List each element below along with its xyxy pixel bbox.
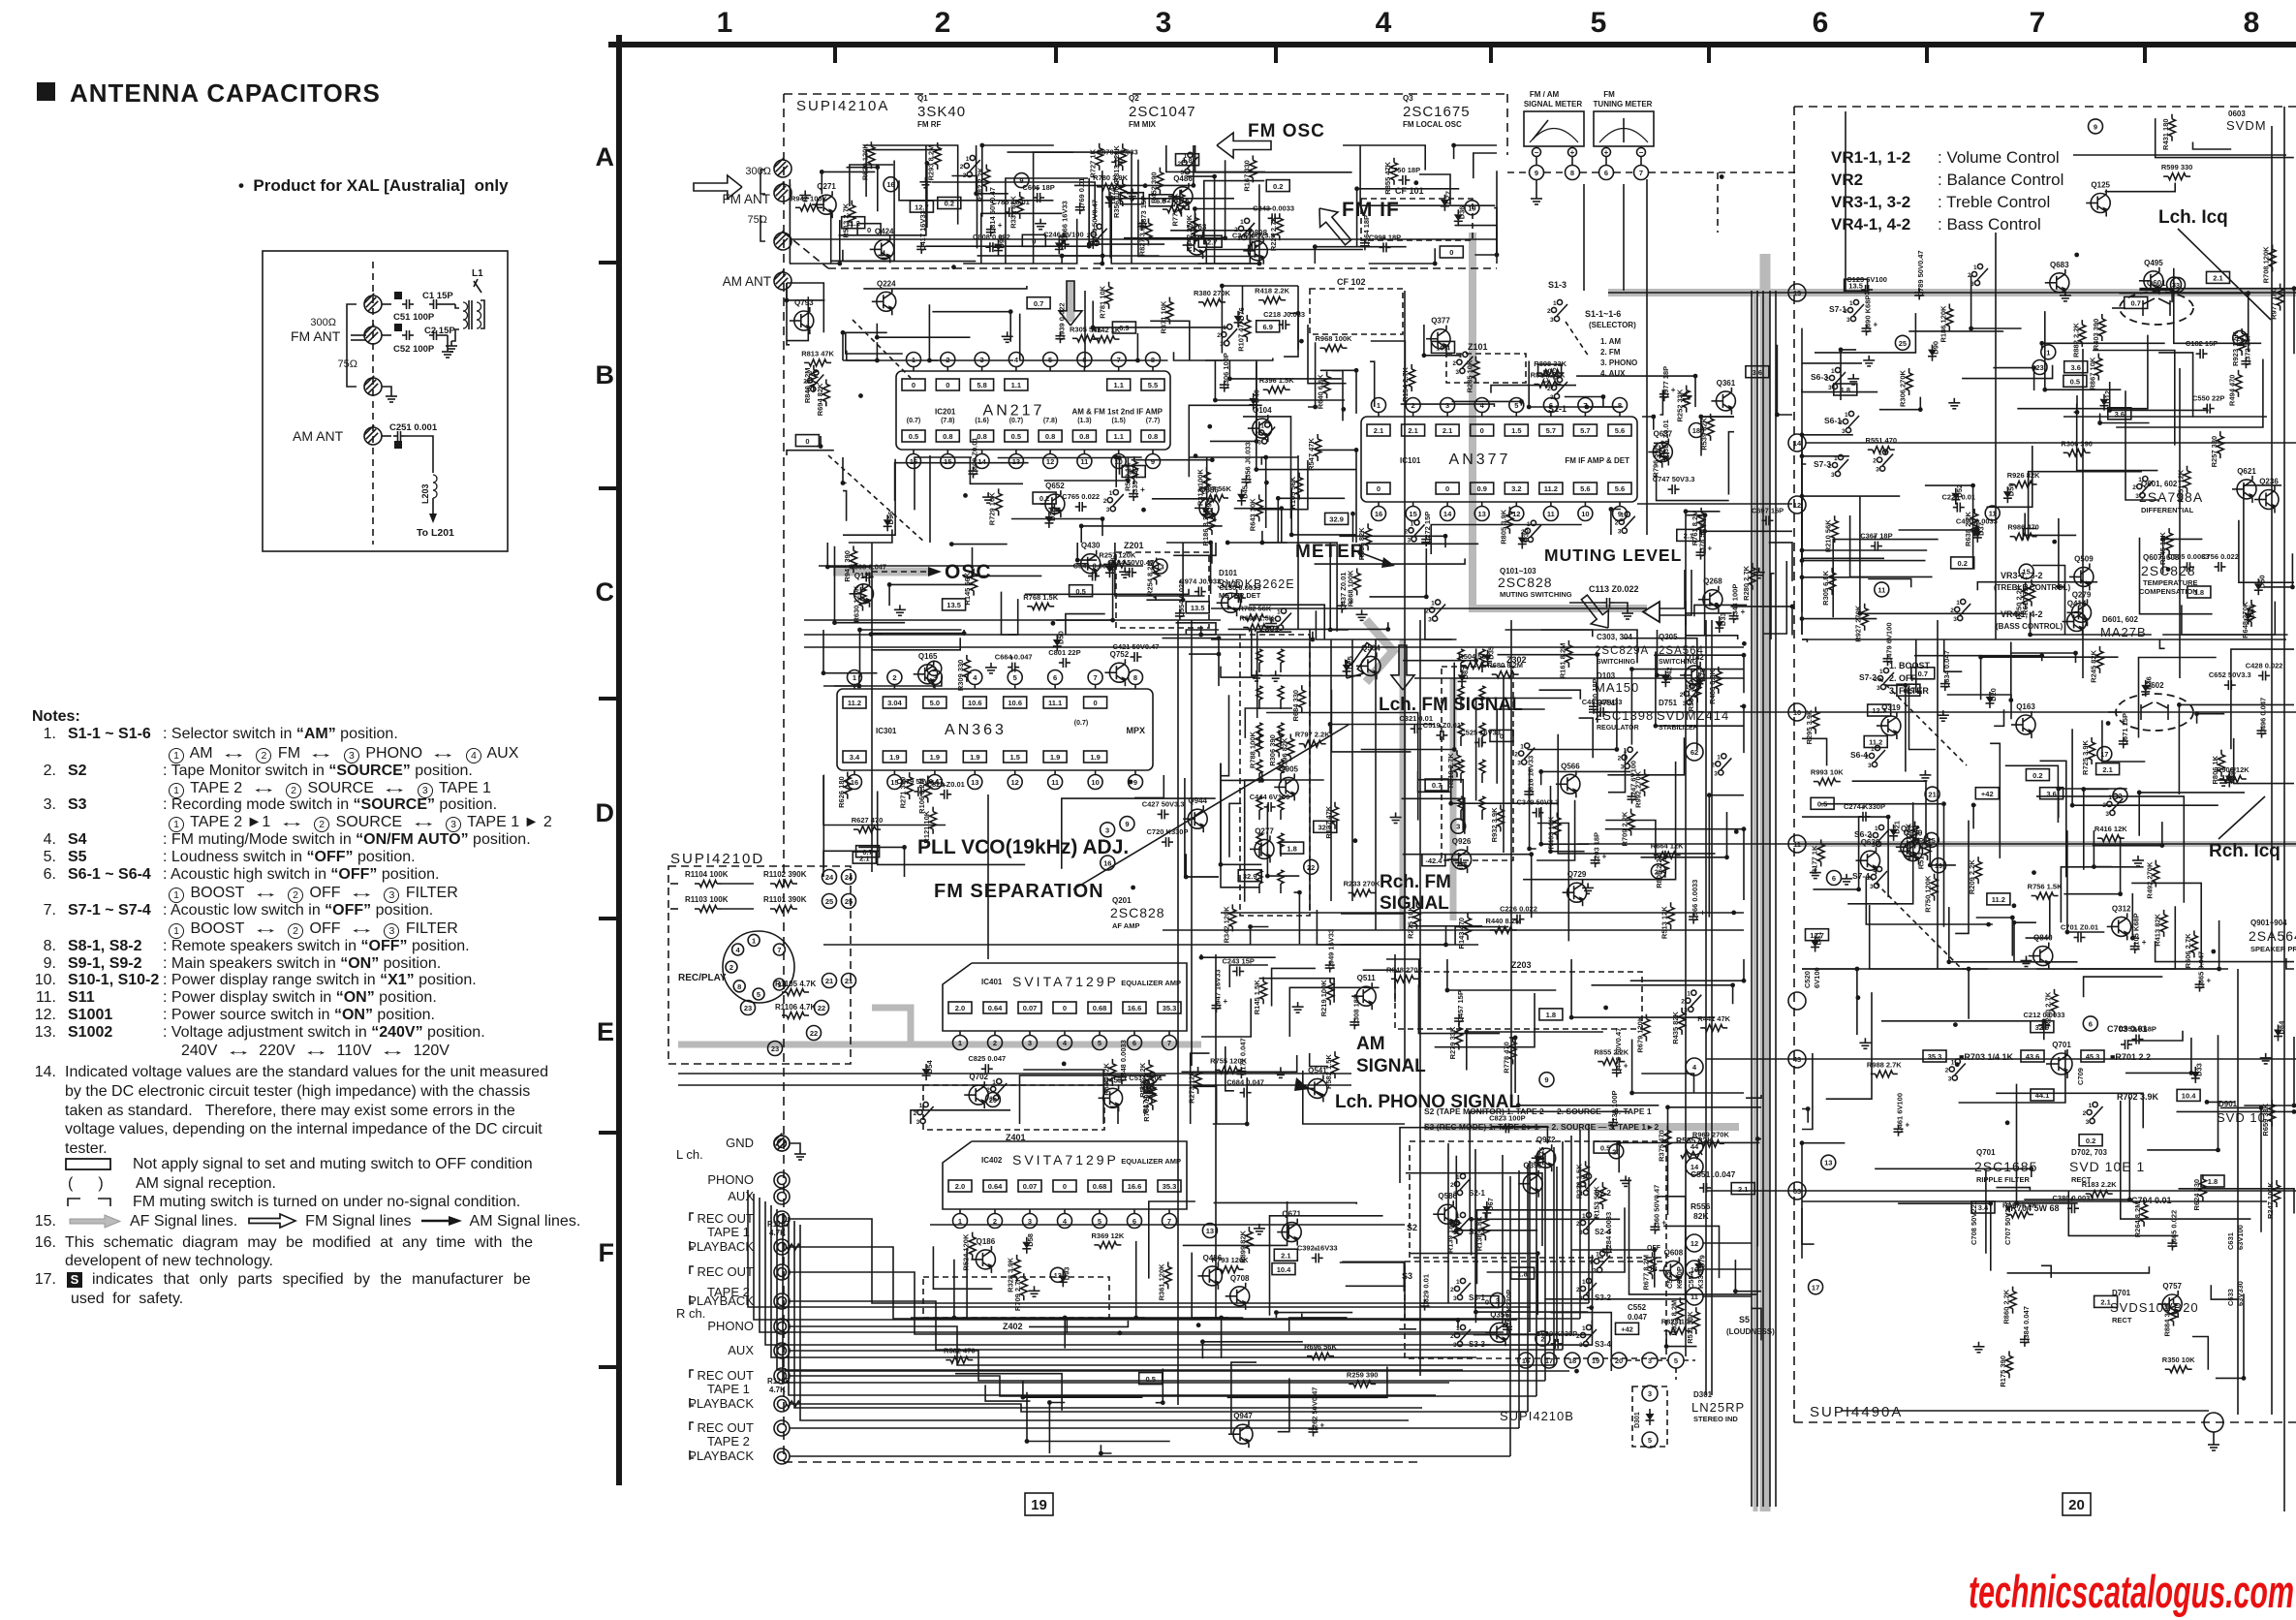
svg-text:Q271: Q271 xyxy=(817,182,836,191)
svg-text:C652 50V3.3: C652 50V3.3 xyxy=(2209,670,2251,679)
svg-text:2: 2 xyxy=(1547,386,1551,392)
svg-text:6.9: 6.9 xyxy=(1119,324,1129,332)
svg-text:1: 1 xyxy=(1717,754,1721,761)
svg-text:13.5: 13.5 xyxy=(946,601,961,609)
svg-text:3: 3 xyxy=(1028,1039,1032,1047)
svg-text:1: 1 xyxy=(1184,153,1188,160)
svg-text:+: + xyxy=(1320,1421,1325,1430)
svg-text:FM IF: FM IF xyxy=(1342,199,1400,221)
svg-text:10: 10 xyxy=(1091,778,1099,787)
svg-text:R368 100K: R368 100K xyxy=(1347,570,1355,607)
svg-text:(0.7): (0.7) xyxy=(1074,720,1088,727)
svg-text:19: 19 xyxy=(1935,861,1942,870)
svg-text:5.7: 5.7 xyxy=(1546,426,1556,435)
svg-text:3: 3 xyxy=(2086,1119,2090,1126)
svg-text:0.5: 0.5 xyxy=(1904,686,1913,695)
svg-text:C303, 304: C303, 304 xyxy=(1597,633,1632,641)
svg-text:3: 3 xyxy=(1550,317,1554,324)
svg-text:R413 82K: R413 82K xyxy=(2154,913,2162,946)
svg-text:5: 5 xyxy=(1591,7,1607,39)
svg-text:3.4: 3.4 xyxy=(850,753,860,762)
svg-text:2: 2 xyxy=(1178,161,1182,168)
svg-text:C308 0.047: C308 0.047 xyxy=(849,563,886,572)
svg-text:7: 7 xyxy=(2030,7,2046,39)
svg-text:0.5: 0.5 xyxy=(1817,800,1827,809)
svg-text:2.1: 2.1 xyxy=(1443,426,1452,435)
svg-text:R396 1.5K: R396 1.5K xyxy=(1259,376,1294,385)
svg-text:Q312: Q312 xyxy=(2112,904,2131,913)
svg-text:16.6: 16.6 xyxy=(1128,1182,1142,1191)
svg-text:3: 3 xyxy=(1453,1191,1457,1198)
svg-text:R556: R556 xyxy=(1691,1201,1711,1211)
svg-text:D301: D301 xyxy=(1693,1390,1713,1399)
svg-text:12: 12 xyxy=(1011,778,1019,787)
svg-text:12.7: 12.7 xyxy=(1203,237,1218,246)
svg-text:24: 24 xyxy=(845,873,853,882)
svg-text:R827 3.9K: R827 3.9K xyxy=(1138,221,1147,256)
svg-text:R259 390: R259 390 xyxy=(1347,1370,1379,1379)
svg-text:C801 22P: C801 22P xyxy=(1048,648,1080,657)
svg-text:(7.8): (7.8) xyxy=(1043,418,1057,424)
svg-text:12: 12 xyxy=(1512,510,1520,518)
svg-text:R624 330: R624 330 xyxy=(2192,1179,2201,1211)
svg-text:SVDM: SVDM xyxy=(2226,118,2267,133)
svg-text:2: 2 xyxy=(935,7,951,39)
svg-text:+42: +42 xyxy=(1621,1325,1633,1334)
svg-text:R648 270K: R648 270K xyxy=(2241,601,2249,639)
svg-text:1: 1 xyxy=(1621,513,1625,519)
svg-text:Q511: Q511 xyxy=(1357,974,1377,982)
svg-text:8: 8 xyxy=(2244,7,2260,39)
svg-text:5: 5 xyxy=(1648,1436,1652,1445)
svg-text:R1108: R1108 xyxy=(767,1377,791,1386)
svg-text:12: 12 xyxy=(1046,457,1054,466)
svg-text:13: 13 xyxy=(1054,1271,1062,1280)
svg-text:SIGNAL METER: SIGNAL METER xyxy=(1524,100,1583,109)
svg-text:10.4: 10.4 xyxy=(2182,1092,2196,1101)
svg-text:0.2: 0.2 xyxy=(1957,559,1967,568)
svg-text:PLL VCO(19kHz) ADJ.: PLL VCO(19kHz) ADJ. xyxy=(917,836,1129,858)
svg-text:2.1: 2.1 xyxy=(859,854,869,862)
svg-text:FM / AM: FM / AM xyxy=(1530,90,1560,99)
svg-text:R293 8.2M: R293 8.2M xyxy=(927,145,936,181)
svg-text:(LOUDNESS): (LOUDNESS) xyxy=(1726,1327,1775,1336)
svg-text:0.8: 0.8 xyxy=(1045,432,1055,441)
svg-text:2: 2 xyxy=(1450,1221,1454,1228)
svg-text:9: 9 xyxy=(1019,176,1023,185)
svg-text:C703 0.01: C703 0.01 xyxy=(2107,1024,2148,1034)
svg-text:TAPE 1: TAPE 1 xyxy=(707,1382,750,1396)
svg-text:+: + xyxy=(2142,938,2147,947)
svg-text:VR2: VR2 xyxy=(1831,171,1863,189)
svg-text:82K: 82K xyxy=(1693,1211,1709,1221)
svg-text:5.7: 5.7 xyxy=(1580,426,1590,435)
svg-text:C130 0.0033: C130 0.0033 xyxy=(1219,583,1260,592)
svg-text:Q702: Q702 xyxy=(969,1073,988,1081)
svg-text:7: 7 xyxy=(777,946,781,954)
svg-text:COMPENSATION: COMPENSATION xyxy=(2139,587,2198,596)
svg-text:SVD 10: SVD 10 xyxy=(2217,1110,2266,1125)
svg-text:Q104: Q104 xyxy=(1253,406,1272,415)
svg-text:R599 330: R599 330 xyxy=(2161,163,2193,171)
svg-text:2: 2 xyxy=(1521,529,1525,536)
svg-text:1: 1 xyxy=(1411,520,1414,527)
svg-text:R219 100K: R219 100K xyxy=(1319,980,1328,1017)
svg-text:IC101: IC101 xyxy=(1400,456,1421,465)
svg-text:Q361: Q361 xyxy=(1717,379,1736,388)
svg-text:3: 3 xyxy=(1181,170,1185,176)
svg-text:AUX: AUX xyxy=(728,1343,754,1357)
svg-text:1.1: 1.1 xyxy=(1011,381,1021,389)
svg-text:45.3: 45.3 xyxy=(2086,1052,2100,1061)
svg-text:R988 2.7K: R988 2.7K xyxy=(1867,1060,1902,1069)
svg-text:1: 1 xyxy=(1456,1174,1460,1181)
svg-text:0.2: 0.2 xyxy=(945,200,954,208)
svg-text:C814 50V0.47: C814 50V0.47 xyxy=(988,187,997,234)
svg-text:3: 3 xyxy=(916,1119,920,1126)
svg-text:AM & FM 1st 2nd IF AMP: AM & FM 1st 2nd IF AMP xyxy=(1072,408,1164,417)
svg-text:S2 (TAPE MONITOR) 1. TAPE: S2 (TAPE MONITOR) 1. TAPE 2 — 2. SOURCE … xyxy=(1424,1106,1652,1116)
svg-text:S7-3: S7-3 xyxy=(1814,459,1831,469)
svg-text:3: 3 xyxy=(1453,1295,1457,1302)
svg-text:3: 3 xyxy=(1106,507,1110,514)
svg-text:1: 1 xyxy=(1831,368,1835,375)
svg-text:C444 6V100: C444 6V100 xyxy=(1250,793,1290,801)
svg-text:1: 1 xyxy=(1553,300,1557,307)
svg-text:3: 3 xyxy=(2105,811,2109,818)
svg-text:+: + xyxy=(1570,148,1575,157)
svg-text:R183 2.2K: R183 2.2K xyxy=(2082,1180,2117,1189)
svg-text:: Balance Control: : Balance Control xyxy=(1938,171,2063,189)
svg-text:11.2: 11.2 xyxy=(1544,484,1558,493)
svg-text:3: 3 xyxy=(1683,701,1687,707)
svg-text:3: 3 xyxy=(1621,764,1625,771)
svg-text:R855 2.2K: R855 2.2K xyxy=(1594,1048,1629,1057)
svg-text:AN377: AN377 xyxy=(1449,452,1511,468)
svg-text:D36: D36 xyxy=(2145,676,2154,690)
svg-text:2.1: 2.1 xyxy=(2102,765,2112,774)
svg-text:Q566: Q566 xyxy=(1561,762,1580,770)
svg-text:25: 25 xyxy=(845,897,853,906)
svg-text:3: 3 xyxy=(1618,529,1622,536)
svg-text:IC301: IC301 xyxy=(876,727,897,735)
svg-text:PHONO: PHONO xyxy=(707,1172,754,1187)
svg-text:R679 120K: R679 120K xyxy=(1635,1015,1644,1053)
svg-text:R797 2.2K: R797 2.2K xyxy=(1295,731,1330,739)
svg-text:Q377: Q377 xyxy=(1431,317,1450,326)
svg-text:2: 2 xyxy=(1514,752,1518,759)
svg-text:OFF: OFF xyxy=(1647,1245,1661,1252)
svg-text:2: 2 xyxy=(1450,1182,1454,1189)
svg-text:14: 14 xyxy=(1443,510,1452,518)
svg-text:B: B xyxy=(596,360,615,389)
svg-text:13: 13 xyxy=(1478,510,1486,518)
svg-text:(0.7): (0.7) xyxy=(907,418,920,424)
svg-text:Q163: Q163 xyxy=(2016,702,2035,711)
svg-text:R271 1K: R271 1K xyxy=(1162,196,1191,204)
svg-text:R709 2.2K: R709 2.2K xyxy=(1621,811,1629,846)
svg-text:R431 180: R431 180 xyxy=(2161,118,2170,150)
svg-text:3: 3 xyxy=(2172,281,2176,290)
svg-text:1: 1 xyxy=(1686,684,1690,691)
svg-text:S7-1: S7-1 xyxy=(1829,304,1846,314)
svg-text:0: 0 xyxy=(1377,484,1381,493)
svg-text:(1.6): (1.6) xyxy=(975,418,988,424)
svg-text:+: + xyxy=(1602,852,1607,860)
svg-text:R860 2.2K: R860 2.2K xyxy=(2002,1289,2011,1324)
svg-text:1.1: 1.1 xyxy=(1113,432,1123,441)
svg-text:R264 8.2M: R264 8.2M xyxy=(2133,1202,2142,1238)
svg-text:D77: D77 xyxy=(1443,191,1452,204)
svg-text:0.2: 0.2 xyxy=(1273,182,1283,191)
svg-text:0.5: 0.5 xyxy=(1145,1375,1155,1384)
svg-text:13: 13 xyxy=(1824,1159,1832,1168)
svg-text:0.7: 0.7 xyxy=(1918,670,1928,678)
svg-text:3.04: 3.04 xyxy=(887,699,902,707)
svg-text:R659 33K: R659 33K xyxy=(2261,1103,2270,1136)
svg-text:FM MIX: FM MIX xyxy=(1129,120,1157,129)
svg-text:8: 8 xyxy=(1133,673,1137,682)
svg-text:1.9: 1.9 xyxy=(889,753,899,762)
svg-text:2: 2 xyxy=(1217,332,1221,339)
svg-text:Z201: Z201 xyxy=(1124,541,1144,550)
svg-text:5: 5 xyxy=(1674,1356,1678,1365)
svg-text:TAPE 2: TAPE 2 xyxy=(707,1434,750,1449)
svg-text:3: 3 xyxy=(1090,241,1094,248)
svg-text:1: 1 xyxy=(2046,348,2050,357)
svg-text:C551 .0.047: C551 .0.047 xyxy=(1691,1169,1736,1179)
svg-text:32.9: 32.9 xyxy=(2035,1023,2050,1032)
svg-text:2: 2 xyxy=(1615,520,1619,527)
svg-text:R306 270K: R306 270K xyxy=(1899,369,1908,407)
svg-text:R350 10K: R350 10K xyxy=(2162,1355,2195,1364)
svg-text:Q652: Q652 xyxy=(1045,482,1065,490)
svg-text:C343 100P: C343 100P xyxy=(1731,584,1740,621)
svg-text:C427 50V3.3: C427 50V3.3 xyxy=(1142,799,1185,808)
svg-text:S2-3: S2-3 xyxy=(1469,1228,1485,1236)
svg-text:2: 2 xyxy=(1547,308,1551,315)
svg-text:+: + xyxy=(1624,1062,1629,1071)
svg-text:6: 6 xyxy=(1132,1039,1136,1047)
svg-text:5: 5 xyxy=(1514,401,1518,410)
svg-text:3: 3 xyxy=(963,172,967,179)
svg-text:2: 2 xyxy=(1950,607,1954,614)
svg-text:R342 120K: R342 120K xyxy=(1222,906,1230,944)
svg-text:2: 2 xyxy=(1618,756,1622,763)
svg-text:3: 3 xyxy=(1579,1342,1583,1349)
svg-text:1: 1 xyxy=(1951,1060,1955,1067)
svg-text:−: − xyxy=(1535,148,1539,157)
svg-text:2: 2 xyxy=(914,1110,917,1117)
svg-text:C866 16V33: C866 16V33 xyxy=(1060,201,1069,241)
svg-text:1: 1 xyxy=(1456,1213,1460,1220)
svg-text:C272 15P: C272 15P xyxy=(1423,512,1432,544)
svg-text:43.6: 43.6 xyxy=(2026,1052,2040,1061)
svg-text:R766 100K: R766 100K xyxy=(1142,1084,1151,1122)
svg-text:S1-1~1-6: S1-1~1-6 xyxy=(1585,309,1621,319)
svg-text:R154 2.7K: R154 2.7K xyxy=(1401,366,1410,401)
svg-text:IC401: IC401 xyxy=(981,978,1003,986)
svg-text:R684 330: R684 330 xyxy=(1291,690,1300,722)
svg-text:1: 1 xyxy=(1879,669,1883,675)
svg-text:0: 0 xyxy=(867,226,871,234)
svg-text:R756 1.5K: R756 1.5K xyxy=(2028,883,2063,891)
svg-text:VR4-1, 4-2: VR4-1, 4-2 xyxy=(1831,215,1910,234)
svg-text:0.2: 0.2 xyxy=(2086,1137,2095,1145)
svg-text:R280 2.7K: R280 2.7K xyxy=(1742,565,1751,600)
svg-text:4: 4 xyxy=(1480,401,1485,410)
svg-text:13: 13 xyxy=(1206,1227,1214,1235)
svg-text:C243 0.0033: C243 0.0033 xyxy=(1253,203,1294,212)
svg-text:R1103 100K: R1103 100K xyxy=(685,895,729,904)
svg-text:C308 18P: C308 18P xyxy=(1351,994,1360,1026)
svg-text:75Ω: 75Ω xyxy=(748,214,767,226)
svg-text:Q430: Q430 xyxy=(1081,542,1101,550)
svg-text:Q125: Q125 xyxy=(2091,181,2110,190)
svg-text:1: 1 xyxy=(1582,1325,1586,1332)
svg-text:35.3: 35.3 xyxy=(1928,1052,1942,1061)
svg-text:2: 2 xyxy=(2083,1110,2087,1117)
svg-text:D67: D67 xyxy=(1486,1198,1495,1211)
svg-text:0.68: 0.68 xyxy=(1093,1004,1107,1012)
svg-text:FM IF AMP & DET: FM IF AMP & DET xyxy=(1565,456,1629,465)
svg-text:1: 1 xyxy=(1277,609,1281,616)
svg-text:+: + xyxy=(1224,997,1228,1006)
svg-text:R884 3.9K: R884 3.9K xyxy=(2163,1301,2172,1336)
svg-text:+: + xyxy=(2207,977,2212,985)
svg-text:D101: D101 xyxy=(1219,569,1238,577)
svg-text:2SA798A: 2SA798A xyxy=(2139,489,2203,505)
svg-text:REC OUT: REC OUT xyxy=(698,1368,755,1383)
svg-text:2: 2 xyxy=(932,665,936,673)
svg-text:4.7K: 4.7K xyxy=(769,1386,786,1394)
svg-text:R250 2.2K: R250 2.2K xyxy=(2015,584,2024,619)
svg-text:C634 0.047: C634 0.047 xyxy=(1942,650,1951,688)
svg-text:S3-3: S3-3 xyxy=(1469,1340,1485,1349)
svg-text:0.5: 0.5 xyxy=(1075,587,1085,596)
svg-text:+: + xyxy=(998,221,1003,230)
svg-text:6: 6 xyxy=(1604,169,1608,177)
svg-text:R209 2.2K: R209 2.2K xyxy=(1968,859,1976,894)
svg-text:To L201: To L201 xyxy=(417,527,454,539)
svg-text:R245 82K: R245 82K xyxy=(2090,649,2098,682)
svg-text:R247 100K: R247 100K xyxy=(2266,1181,2275,1219)
svg-text:3: 3 xyxy=(2135,493,2139,500)
svg-text:R295 3.9K: R295 3.9K xyxy=(1805,709,1814,744)
svg-text:■R701 2.2: ■R701 2.2 xyxy=(2110,1052,2151,1062)
svg-text:4: 4 xyxy=(973,673,977,682)
svg-text:D37: D37 xyxy=(1976,522,1985,536)
svg-text:1.8: 1.8 xyxy=(1517,1269,1527,1278)
svg-text:: Treble Control: : Treble Control xyxy=(1938,193,2050,211)
svg-text:0.047: 0.047 xyxy=(1628,1313,1648,1322)
svg-text:Q277: Q277 xyxy=(1255,826,1274,835)
svg-text:S3 (REC MODE) 1. TA: S3 (REC MODE) 1. TAPE 2►1 — 2. SOURCE — … xyxy=(1424,1122,1660,1132)
svg-text:R245 12K: R245 12K xyxy=(2158,532,2167,565)
svg-text:Q729: Q729 xyxy=(1567,870,1587,879)
svg-text:12: 12 xyxy=(1793,501,1801,510)
svg-text:D601, 602: D601, 602 xyxy=(2102,615,2138,624)
svg-text:D58: D58 xyxy=(1026,1233,1035,1247)
svg-text:Q224: Q224 xyxy=(877,279,896,288)
svg-text:3: 3 xyxy=(1593,1268,1597,1275)
svg-text:Q424: Q424 xyxy=(875,227,894,235)
svg-text:3: 3 xyxy=(1948,1076,1952,1083)
svg-text:Q1: Q1 xyxy=(917,94,928,103)
svg-text:C708 50V220: C708 50V220 xyxy=(1970,1200,1978,1245)
svg-text:35.3: 35.3 xyxy=(1163,1182,1177,1191)
svg-text:3. PHONO: 3. PHONO xyxy=(1600,358,1637,367)
svg-text:12: 12 xyxy=(1691,1239,1698,1248)
svg-text:D702, 703: D702, 703 xyxy=(2071,1148,2107,1157)
svg-text:0: 0 xyxy=(1094,699,1098,707)
svg-text:(1.5): (1.5) xyxy=(1111,418,1125,424)
svg-text:8: 8 xyxy=(737,982,741,991)
svg-text:0.5: 0.5 xyxy=(1011,432,1021,441)
svg-text:PLAYBACK: PLAYBACK xyxy=(688,1449,754,1463)
svg-text:1.8: 1.8 xyxy=(1841,386,1850,394)
svg-text:C769 0.01: C769 0.01 xyxy=(1077,178,1086,212)
svg-text:1: 1 xyxy=(1582,1213,1586,1220)
svg-text:D84: D84 xyxy=(2278,1020,2286,1035)
svg-text:0: 0 xyxy=(912,381,915,389)
svg-text:3.6: 3.6 xyxy=(2070,363,2080,372)
svg-text:R273 12K: R273 12K xyxy=(1188,1071,1196,1104)
svg-text:C520: C520 xyxy=(1803,971,1812,988)
svg-text:15: 15 xyxy=(1409,510,1416,518)
svg-text:11.2: 11.2 xyxy=(1869,738,1882,747)
svg-text:R923 1.5K: R923 1.5K xyxy=(2231,330,2240,365)
svg-text:0.7: 0.7 xyxy=(1034,299,1043,308)
svg-text:0.07: 0.07 xyxy=(1023,1004,1038,1012)
svg-text:S3: S3 xyxy=(1402,1271,1412,1281)
svg-text:1: 1 xyxy=(1260,423,1264,430)
svg-text:C550 22P: C550 22P xyxy=(2192,394,2224,403)
svg-text:Q630: Q630 xyxy=(1861,838,1880,847)
svg-text:R403 10K: R403 10K xyxy=(1546,816,1555,849)
svg-text:0.8: 0.8 xyxy=(1079,432,1089,441)
svg-text:3: 3 xyxy=(1517,761,1521,767)
svg-text:1: 1 xyxy=(1520,744,1524,751)
svg-text:Q279: Q279 xyxy=(2072,590,2092,599)
svg-text:AM ANT: AM ANT xyxy=(723,274,771,289)
svg-text:1: 1 xyxy=(1875,826,1878,832)
svg-text:R275 10K: R275 10K xyxy=(1406,906,1414,939)
svg-text:CF 102: CF 102 xyxy=(1337,277,1366,287)
svg-text:1.8: 1.8 xyxy=(1546,1011,1556,1019)
svg-text:SUPI4490A: SUPI4490A xyxy=(1810,1404,1903,1420)
svg-text:AN363: AN363 xyxy=(945,722,1007,738)
svg-text:C966 0.0033: C966 0.0033 xyxy=(1691,880,1699,921)
svg-text:C356 J0.033: C356 J0.033 xyxy=(1244,442,1253,483)
svg-text:D: D xyxy=(596,798,615,827)
svg-text:R513 12K: R513 12K xyxy=(1660,906,1669,939)
svg-text:R926 82K: R926 82K xyxy=(2007,471,2040,480)
svg-text:13: 13 xyxy=(1012,457,1020,466)
svg-text:C428 0.022: C428 0.022 xyxy=(2246,661,2283,670)
svg-text:C306 100P: C306 100P xyxy=(1222,353,1230,389)
svg-text:2SC1685: 2SC1685 xyxy=(1974,1159,2037,1174)
svg-text:R145 56K: R145 56K xyxy=(963,572,972,605)
svg-text:(1.3): (1.3) xyxy=(1077,418,1091,424)
svg-text:3: 3 xyxy=(1876,467,1879,474)
svg-text:0.8: 0.8 xyxy=(943,432,952,441)
svg-text:32.9: 32.9 xyxy=(1329,515,1344,524)
svg-text:R494 470: R494 470 xyxy=(2228,375,2237,407)
svg-text:Q752: Q752 xyxy=(1110,650,1130,659)
svg-text:20: 20 xyxy=(2068,1497,2085,1513)
svg-text:2: 2 xyxy=(1680,692,1684,699)
